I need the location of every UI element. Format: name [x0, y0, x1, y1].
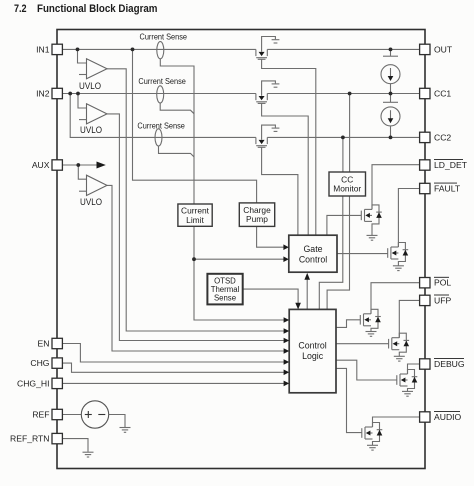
pin IN1 [36, 44, 62, 54]
block CC Monitor [329, 172, 366, 196]
transistor QA (LD_DET pulldown) [361, 205, 382, 236]
block Control Logic [289, 309, 336, 392]
svg-text:Monitor: Monitor [333, 184, 361, 194]
pin EN [38, 338, 63, 348]
wire pass FET Q3 to CC2 pin [267, 136, 419, 138]
svg-text:AUX: AUX [32, 160, 50, 170]
svg-text:IN1: IN1 [36, 44, 50, 54]
pin CHG_HI [17, 378, 62, 388]
wire IN2 tap to UVLO U2 input [78, 94, 87, 109]
transistor QD (UFP pulldown) [389, 333, 410, 356]
svg-text:IN2: IN2 [36, 89, 50, 99]
svg-text:REF_RTN: REF_RTN [10, 434, 49, 444]
wire LD_DET pin to FET QA drain [372, 165, 420, 210]
current sense 1 [140, 32, 188, 59]
wire AUDIO pin to FET QF drain [373, 417, 420, 427]
svg-text:LD_DET: LD_DET [434, 160, 468, 170]
arrowhead up into Gate Control bottom [304, 273, 310, 280]
svg-text:Control: Control [298, 341, 326, 351]
transistor QB (FAULT pulldown) [388, 243, 409, 266]
ground at REF_RTN [83, 452, 94, 457]
ground at REF source [120, 428, 131, 433]
wire UVLO U2 output to Control Logic [107, 114, 284, 341]
wire Q2 gate line down to Gate Control [262, 103, 309, 235]
wire Gate Control to FET QA gate (LD_DET) [327, 215, 361, 235]
svg-text:UVLO: UVLO [80, 197, 102, 207]
svg-text:OUT: OUT [434, 44, 453, 54]
wire Q1 gate line down to Gate Control [262, 59, 316, 235]
pin AUX [32, 160, 63, 170]
wire pass FET Q1 to OUT pin [267, 48, 419, 50]
ground below QD [394, 356, 405, 361]
wire EN to Control Logic [62, 344, 283, 363]
svg-text:CHG: CHG [30, 358, 49, 368]
wire Control Logic to FET QC gate (POL) [336, 320, 360, 328]
ground below QC [366, 332, 377, 337]
wire CC1 tap down to CC Monitor [349, 94, 351, 173]
pin FAULT [420, 183, 461, 194]
svg-text:CC1: CC1 [434, 89, 451, 99]
wire DEBUG pin to FET QE drain [408, 364, 420, 374]
arrowheads into Control Logic left edge [284, 317, 290, 386]
wire current sense 1 output to current limit chain [160, 59, 283, 320]
ground below QA [367, 235, 378, 240]
wire voltage source to ground [109, 415, 125, 428]
pin LD_DET [420, 160, 468, 171]
pin REF_RTN [10, 433, 62, 443]
wire FAULT pin to FET QB drain [398, 189, 419, 248]
pin OUT [420, 44, 453, 54]
wire CHG to Control Logic [62, 363, 283, 372]
svg-text:REF: REF [32, 410, 49, 420]
arrowhead down into Control Logic top [295, 303, 301, 310]
ground below QE [402, 391, 413, 396]
svg-text:POL: POL [434, 278, 451, 288]
pin POL [420, 277, 452, 288]
wire Control Logic to FET QF gate (AUDIO) [336, 368, 362, 432]
block Current Limit [178, 204, 212, 226]
svg-text:Logic: Logic [302, 351, 324, 361]
transistor QF (AUDIO pulldown) [362, 423, 383, 446]
svg-text:UVLO: UVLO [79, 81, 101, 91]
current sense 3 [137, 120, 185, 146]
svg-text:Functional Block Diagram: Functional Block Diagram [37, 3, 158, 15]
wire IN1 tap to UVLO U1 input [78, 49, 87, 63]
svg-text:7.2: 7.2 [14, 3, 27, 15]
svg-text:AUDIO: AUDIO [434, 412, 462, 422]
ground below QB [393, 266, 404, 271]
block Charge Pump [239, 203, 274, 227]
wire CC Monitor output B to Control Logic top [327, 196, 349, 309]
junction node dots [68, 48, 392, 262]
wire REF pin to voltage source [62, 414, 81, 416]
wire Control Logic to Gate Control [306, 279, 308, 310]
pin REF [32, 409, 62, 419]
svg-text:Current Sense: Current Sense [137, 120, 185, 130]
transistor Q1 pass FET on OUT rail [256, 37, 280, 60]
svg-text:EN: EN [38, 339, 50, 349]
wire Control Logic to FET QD gate (UFP) [336, 343, 389, 345]
wire Control Logic to FET QE gate (DEBUG) [336, 360, 397, 380]
wire Charge Pump output to Gate Control [257, 226, 284, 247]
wire CHG_HI to Control Logic [62, 382, 283, 384]
transistor QC (POL pulldown) [360, 309, 381, 331]
wire IN1 supply feed to Charge Pump [133, 49, 257, 203]
svg-text:Limit: Limit [186, 215, 204, 225]
wire REF_RTN to ground [62, 439, 88, 452]
wire UVLO U1 output to Control Logic [107, 69, 284, 331]
wire pass FET Q2 to CC1 pin [267, 93, 419, 95]
current sense 2 [138, 76, 186, 103]
ground below QF [367, 445, 378, 450]
wire UFP pin to FET QD drain [399, 300, 419, 337]
pin CC2 [420, 132, 452, 142]
arrow AUX internal supply [97, 162, 106, 169]
outer device boundary box [57, 30, 425, 469]
wire AUX tap to UVLO U3 input [78, 165, 86, 179]
transistor QE (DEBUG pulldown) [397, 370, 418, 392]
transistor Q3 pass FET on CC2 rail [256, 125, 280, 147]
block Gate Control [289, 235, 337, 272]
current source I1 between OUT and CC1 [381, 49, 400, 93]
op-amp U2 UVLO [79, 104, 107, 135]
wire OTSD output to Control Logic top [243, 289, 298, 304]
pin UFP [420, 295, 452, 306]
current source I2 between CC1 and CC2 [381, 94, 400, 138]
pin CC1 [420, 88, 452, 98]
transistor Q2 pass FET on CC1 rail [256, 81, 280, 104]
wire CC Monitor output A to Control Logic top [319, 196, 343, 309]
pin IN2 [36, 88, 62, 98]
wire IN2 branch down to third rail [70, 94, 256, 138]
wire Gate Control to FET QB gate (FAULT) [337, 253, 388, 255]
wire current sense 2 output merging into chain [160, 103, 194, 114]
svg-text:CC2: CC2 [434, 132, 451, 142]
arrowheads into Gate Control left edge [283, 244, 288, 262]
wire current limit output to Gate Control [194, 258, 284, 260]
svg-text:UVLO: UVLO [80, 125, 102, 135]
wire UVLO U3 output to Control Logic [107, 185, 284, 351]
svg-text:Pump: Pump [246, 214, 268, 224]
wire AUX line to arrow [62, 164, 96, 166]
svg-text:UFP: UFP [434, 295, 451, 305]
svg-text:FAULT: FAULT [434, 184, 461, 194]
block OTSD Thermal Sense [207, 274, 242, 305]
op-amp U3 UVLO [79, 175, 107, 207]
svg-text:Control: Control [299, 255, 327, 265]
svg-text:Sense: Sense [214, 294, 236, 303]
wire current sense 3 output merging into chain [159, 146, 195, 157]
pin AUDIO [420, 412, 462, 423]
wire POL pin to FET QC drain [371, 283, 420, 314]
svg-text:DEBUG: DEBUG [434, 359, 465, 369]
wire IN1 rail to pass FET Q1 [62, 48, 256, 50]
wire CC2 tap down to CC Monitor [342, 137, 344, 172]
wire Q3 gate line down to Gate Control [262, 147, 298, 235]
op-amp U1 UVLO [79, 59, 107, 91]
svg-text:Gate: Gate [303, 244, 322, 254]
title heading [14, 3, 158, 15]
voltage source REF [81, 401, 108, 428]
svg-text:Current Sense: Current Sense [140, 32, 188, 42]
svg-text:Current Sense: Current Sense [138, 76, 186, 86]
pin DEBUG [420, 359, 465, 370]
wire IN2 rail to pass FET Q2 [62, 93, 256, 95]
svg-text:CHG_HI: CHG_HI [17, 378, 49, 388]
pin CHG [30, 358, 62, 368]
